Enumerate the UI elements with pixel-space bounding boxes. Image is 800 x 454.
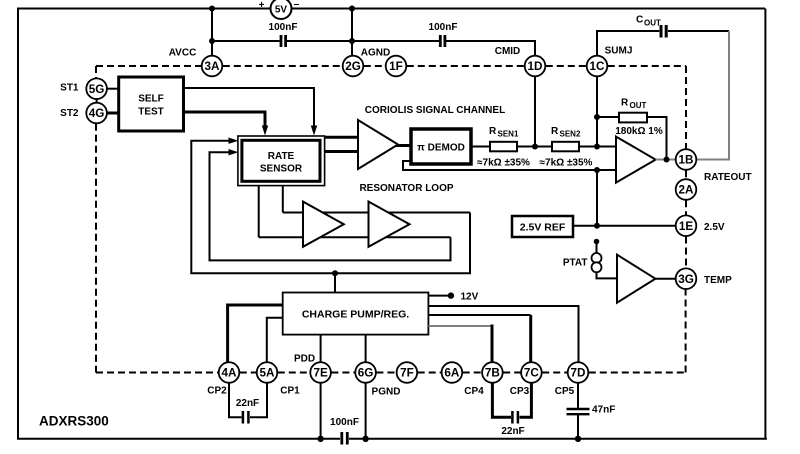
svg-text:CORIOLIS SIGNAL CHANNEL: CORIOLIS SIGNAL CHANNEL xyxy=(365,105,505,116)
pin 3A xyxy=(202,56,223,77)
wire SELF TEST lower output to rate sensor (thick) xyxy=(184,112,266,128)
source V1 5V xyxy=(259,0,300,19)
wire demod output to RSEN1 xyxy=(471,146,490,148)
wire amp to demod (thick) xyxy=(396,144,411,147)
amplifier A1 resonator loop 1 xyxy=(303,202,344,247)
svg-text:SELF: SELF xyxy=(138,94,164,105)
wire 4A to 22nF xyxy=(229,383,242,417)
wire charge pump to 5A xyxy=(267,318,283,363)
svg-text:R: R xyxy=(489,126,497,137)
box U2 RATE SENSOR outer xyxy=(238,136,325,186)
capacitor C3 22nF (CP2-CP1) xyxy=(236,398,259,424)
svg-text:ADXRS300: ADXRS300 xyxy=(39,414,109,429)
resistor ROUT xyxy=(615,98,663,138)
wire bottom ground rail right of 100nF xyxy=(349,438,767,440)
junction summing node xyxy=(594,144,600,150)
svg-text:2G: 2G xyxy=(345,60,361,73)
svg-text:2.5V REF: 2.5V REF xyxy=(520,222,566,234)
svg-text:R: R xyxy=(621,98,629,109)
svg-text:C: C xyxy=(636,15,643,26)
svg-text:≈7kΩ ±35%: ≈7kΩ ±35% xyxy=(477,157,530,168)
arrowhead into rate sensor top (thin) xyxy=(311,126,317,136)
svg-text:7F: 7F xyxy=(400,367,414,380)
wire bypass rail y=41 segment 1 xyxy=(212,40,280,42)
svg-text:1F: 1F xyxy=(389,60,403,73)
wire 6G to ground rail xyxy=(365,383,367,439)
svg-text:2.5V: 2.5V xyxy=(704,222,725,233)
svg-text:3G: 3G xyxy=(678,273,694,286)
svg-text:R: R xyxy=(551,126,559,137)
wire resonator to charge pump xyxy=(334,273,336,292)
wire COUT right segment xyxy=(668,30,729,32)
pin 6A xyxy=(442,362,463,383)
svg-text:RESONATOR LOOP: RESONATOR LOOP xyxy=(359,183,453,194)
pin 2A xyxy=(676,179,697,200)
pin 4G xyxy=(86,103,107,124)
junction 47nF ground xyxy=(575,436,581,442)
svg-text:ST2: ST2 xyxy=(60,108,79,119)
junction 7E ground xyxy=(317,436,323,442)
svg-text:CP4: CP4 xyxy=(464,386,484,397)
junction charge pump feed xyxy=(332,270,338,276)
pin 1F xyxy=(386,56,407,77)
pin 1D xyxy=(525,56,546,77)
junction on bypass rail at x=212 xyxy=(209,38,215,44)
capacitor C4 22nF (CP4-CP3) xyxy=(501,411,524,437)
svg-text:PGND: PGND xyxy=(372,387,401,398)
wire 1D down to RSEN junction xyxy=(534,76,536,146)
wire PTAT to temp amp xyxy=(597,272,618,278)
wire 5G-4G link xyxy=(96,97,98,105)
svg-text:AGND: AGND xyxy=(361,48,390,59)
wire charge pump to 7D xyxy=(428,306,578,362)
svg-text:ST1: ST1 xyxy=(60,83,79,94)
svg-text:7D: 7D xyxy=(571,367,586,380)
svg-text:4A: 4A xyxy=(222,367,238,380)
wire COUT net from 1C up and right xyxy=(597,31,659,56)
junction 12V xyxy=(448,292,454,298)
svg-text:+: + xyxy=(259,0,265,11)
capacitor C6 100nF (PDD-PGND) xyxy=(330,417,359,445)
wire bypass rail y=41 segment 2 xyxy=(287,40,439,42)
svg-text:6G: 6G xyxy=(358,367,374,380)
svg-text:1B: 1B xyxy=(679,154,694,167)
wire 1C down to summing node xyxy=(596,76,598,146)
dashed net top row xyxy=(96,66,686,149)
box U3 pi DEMOD xyxy=(411,129,471,164)
junction 1D node xyxy=(532,144,538,150)
junction on top rail at x=212 xyxy=(209,6,215,12)
box U1 SELF TEST xyxy=(119,77,184,131)
svg-text:180kΩ 1%: 180kΩ 1% xyxy=(615,126,663,137)
junction on bypass rail at x=352 xyxy=(349,38,355,44)
svg-text:SEN1: SEN1 xyxy=(498,130,519,139)
pin 7C xyxy=(521,362,542,383)
wire RSEN1 to RSEN2 xyxy=(517,146,552,148)
wire 7B riser (thick) xyxy=(491,325,494,363)
svg-text:CP3: CP3 xyxy=(510,386,530,397)
pin 7B xyxy=(482,362,503,383)
svg-text:SUMJ: SUMJ xyxy=(605,46,633,57)
svg-text:OUT: OUT xyxy=(644,19,661,28)
wire rate sensor bottom drop right xyxy=(282,186,284,213)
wire rate sensor output lower (thick) xyxy=(325,150,360,153)
svg-text:–: – xyxy=(294,0,300,10)
wire 47nF to ground rail xyxy=(577,414,579,439)
svg-text:CP5: CP5 xyxy=(555,386,575,397)
svg-text:1D: 1D xyxy=(528,60,543,73)
capacitor C5 47nF xyxy=(567,405,616,416)
svg-text:1C: 1C xyxy=(590,60,606,73)
capacitor COUT xyxy=(636,15,666,38)
svg-text:≈7kΩ ±35%: ≈7kΩ ±35% xyxy=(540,157,593,168)
pin 5A xyxy=(257,362,278,383)
wire charge pump to 4A (thick) xyxy=(228,305,283,362)
wire charge pump to 7C horizontal xyxy=(428,314,530,316)
wire bottom ground rail left of 100nF xyxy=(17,438,340,440)
svg-text:RATE: RATE xyxy=(268,151,295,162)
wire frame right border xyxy=(764,9,766,440)
pin 7D xyxy=(568,362,589,383)
svg-text:12V: 12V xyxy=(461,292,479,303)
pin 7E xyxy=(310,362,331,383)
box U5 2.5V REF xyxy=(512,216,573,237)
wire 5A to 22nF xyxy=(250,383,267,417)
svg-text:100nF: 100nF xyxy=(269,22,298,33)
wire 7D down to 47nF xyxy=(577,383,579,408)
wire AVCC drop x=212 xyxy=(211,9,213,57)
wire resonator inner loop xyxy=(210,152,451,260)
wire AGND drop x=352 xyxy=(351,9,353,57)
svg-text:22nF: 22nF xyxy=(501,426,524,437)
current source PTAT xyxy=(563,239,602,273)
pin 7F xyxy=(397,362,418,383)
svg-text:CMID: CMID xyxy=(495,46,521,57)
svg-text:100nF: 100nF xyxy=(429,22,458,33)
pin 1B xyxy=(676,149,697,170)
svg-text:AVCC: AVCC xyxy=(169,48,197,59)
wire 7E to ground rail xyxy=(320,383,322,439)
op-amp U4 xyxy=(616,137,656,183)
wire charge pump to 6G xyxy=(365,335,367,363)
wire rate sensor output upper (thick) xyxy=(325,136,360,139)
pin 3G xyxy=(676,268,697,289)
wire 5G to SELF TEST xyxy=(107,88,119,90)
svg-text:7C: 7C xyxy=(524,367,540,380)
svg-text:47nF: 47nF xyxy=(592,405,615,416)
pin 1C xyxy=(587,56,608,77)
junction ROUT tap xyxy=(594,114,600,120)
junction on top rail at x=352 xyxy=(349,6,355,12)
junction on 2.5V wire xyxy=(594,223,600,229)
dashed net bottom row xyxy=(240,290,686,373)
wire 4G to SELF TEST (thick) xyxy=(107,112,119,115)
wire ROUT left xyxy=(597,116,619,118)
wire 7B to 22nF (thick) xyxy=(492,383,511,417)
svg-text:SEN2: SEN2 xyxy=(560,130,581,139)
wire 2.5V REF to 1E xyxy=(573,225,676,227)
wire RSEN2 to op-amp xyxy=(579,146,616,148)
svg-text:SENSOR: SENSOR xyxy=(260,163,303,174)
wire rate sensor bottom drop left xyxy=(258,186,260,238)
svg-text:6A: 6A xyxy=(444,367,460,380)
wire bypass rail y=41 segment 3 with corner to 1D xyxy=(446,41,535,56)
pin 6G xyxy=(355,362,376,383)
box U2 RATE SENSOR inner xyxy=(242,140,320,181)
svg-text:π DEMOD: π DEMOD xyxy=(417,143,465,154)
resistor RSEN1 xyxy=(477,126,530,168)
svg-text:PDD: PDD xyxy=(294,353,315,364)
junction demod lower wire at x=597 xyxy=(594,167,600,173)
wire 12V stub xyxy=(428,295,451,297)
capacitor C1 100nF (AVCC-AGND) xyxy=(269,22,298,47)
svg-text:CHARGE PUMP/REG.: CHARGE PUMP/REG. xyxy=(302,309,409,321)
svg-text:CP1: CP1 xyxy=(280,386,300,397)
wire charge pump to 7E xyxy=(320,335,322,363)
svg-text:1E: 1E xyxy=(679,220,694,233)
amplifier A4 temp buffer xyxy=(617,255,655,303)
svg-text:5G: 5G xyxy=(89,83,105,96)
capacitor C2 100nF (AGND-CMID) xyxy=(429,22,458,47)
wire top 5V rail / frame top xyxy=(17,8,765,10)
wire gray feedback COUT to 1B xyxy=(697,31,730,160)
wire 7C riser (thick) xyxy=(529,315,532,362)
svg-text:100nF: 100nF xyxy=(330,417,359,428)
svg-text:3A: 3A xyxy=(205,60,221,73)
wire resonator outer loop xyxy=(191,141,470,274)
amplifier A3 coriolis channel xyxy=(358,120,398,169)
svg-text:OUT: OUT xyxy=(630,101,647,110)
wire charge pump to 7B horizontal (gray) xyxy=(428,325,492,327)
wire gray op-amp output to 1B xyxy=(656,159,676,161)
pin 5G xyxy=(86,78,107,99)
dashed net right column xyxy=(685,170,687,268)
amplifier A2 resonator loop 2 xyxy=(369,202,410,247)
wire temp amp to 3G xyxy=(655,278,675,280)
svg-text:TEMP: TEMP xyxy=(704,275,732,286)
wire SELF TEST upper output to rate sensor xyxy=(184,88,315,128)
svg-text:5A: 5A xyxy=(260,367,276,380)
junction op-amp output xyxy=(664,157,670,163)
wire resonator top bus xyxy=(283,212,470,214)
svg-text:5V: 5V xyxy=(275,5,288,16)
pin 1E xyxy=(676,215,697,236)
arrowhead into rate sensor left upper xyxy=(229,138,239,144)
svg-text:4G: 4G xyxy=(89,107,105,120)
junction 6G ground xyxy=(362,436,368,442)
dashed net left column xyxy=(96,66,218,373)
arrowhead into rate sensor top (thick) xyxy=(262,126,268,136)
svg-text:RATEOUT: RATEOUT xyxy=(704,172,752,183)
pin 2G xyxy=(343,56,364,77)
box U6 CHARGE PUMP/REG. xyxy=(283,293,429,335)
arrowhead into rate sensor left lower xyxy=(229,149,239,155)
wire demod lower output step xyxy=(403,161,616,170)
svg-text:7B: 7B xyxy=(485,367,500,380)
wire resonator bottom bus xyxy=(259,236,451,238)
svg-text:CP2: CP2 xyxy=(207,386,227,397)
svg-text:PTAT: PTAT xyxy=(563,258,588,269)
pin 4A xyxy=(219,362,240,383)
svg-text:22nF: 22nF xyxy=(236,398,259,409)
resistor RSEN2 xyxy=(540,126,593,168)
svg-text:7E: 7E xyxy=(313,367,328,380)
wire summing node down to 2.5V ref wire xyxy=(596,170,598,226)
wire ROUT right down to output xyxy=(647,117,667,160)
svg-text:2A: 2A xyxy=(679,184,695,197)
wire frame left border xyxy=(17,9,19,440)
svg-text:TEST: TEST xyxy=(138,107,164,118)
wire 7C to 22nF (thick) xyxy=(520,383,532,417)
